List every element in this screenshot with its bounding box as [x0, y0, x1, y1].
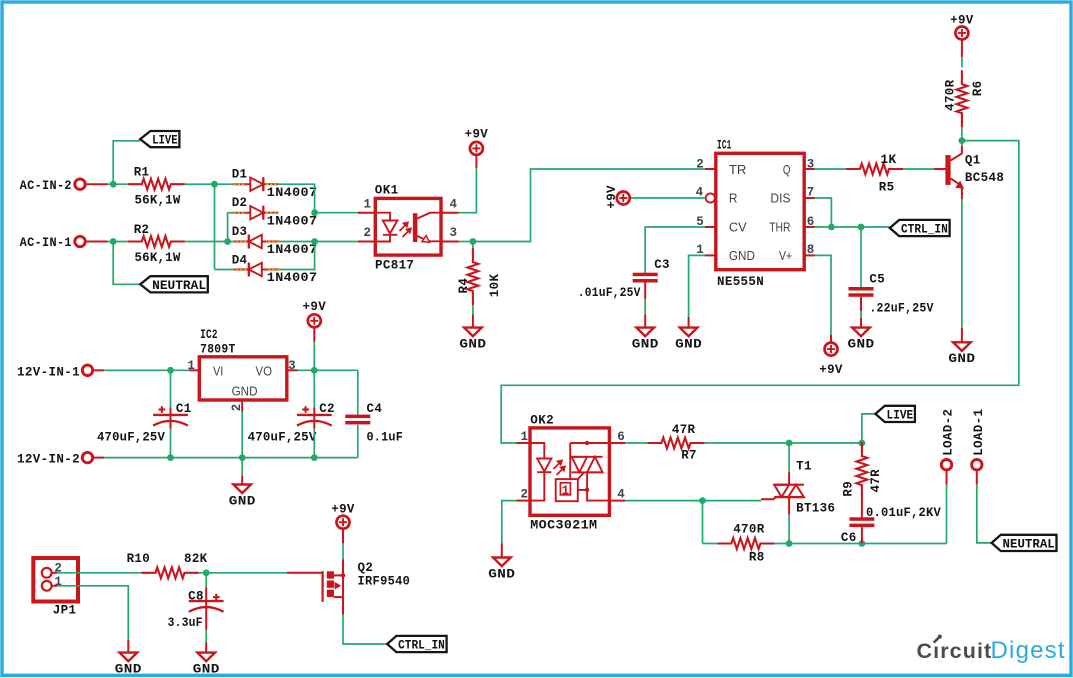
svg-text:6: 6	[807, 215, 815, 229]
svg-text:1N4007: 1N4007	[267, 270, 318, 285]
svg-text:470uF,25V: 470uF,25V	[248, 430, 317, 444]
svg-text:C3: C3	[654, 257, 670, 272]
svg-text:12V-IN-2: 12V-IN-2	[17, 452, 80, 467]
svg-text:NEUTRAL: NEUTRAL	[1003, 538, 1055, 552]
svg-text:1K: 1K	[881, 152, 897, 167]
svg-text:C2: C2	[319, 401, 335, 416]
svg-text:2: 2	[521, 487, 529, 501]
svg-text:CV: CV	[729, 220, 747, 235]
svg-text:T1: T1	[796, 459, 812, 474]
svg-text:Q: Q	[783, 162, 791, 177]
svg-text:D2: D2	[232, 195, 248, 210]
svg-text:NEUTRAL: NEUTRAL	[152, 279, 206, 293]
svg-text:6: 6	[617, 430, 625, 444]
svg-text:D3: D3	[232, 224, 248, 239]
svg-text:V+: V+	[779, 248, 792, 263]
svg-text:LIVE: LIVE	[887, 409, 914, 423]
svg-text:0.01uF,2KV: 0.01uF,2KV	[866, 506, 941, 520]
svg-text:GND: GND	[232, 383, 258, 398]
svg-text:C4: C4	[367, 401, 383, 416]
svg-text:AC-IN-2: AC-IN-2	[20, 178, 72, 193]
svg-text:R5: R5	[879, 179, 895, 194]
svg-text:CTRL_IN: CTRL_IN	[398, 639, 445, 653]
svg-text:56K,1W: 56K,1W	[135, 251, 181, 265]
svg-text:1N4007: 1N4007	[267, 185, 318, 200]
svg-text:2: 2	[364, 226, 372, 240]
svg-text:1: 1	[562, 484, 570, 498]
svg-text:1: 1	[364, 198, 372, 212]
svg-text:3: 3	[450, 226, 458, 240]
svg-text:4: 4	[617, 487, 625, 501]
svg-text:1N4007: 1N4007	[267, 242, 318, 257]
svg-text:R4: R4	[456, 278, 471, 294]
svg-text:2: 2	[696, 157, 704, 171]
svg-text:JP1: JP1	[53, 603, 77, 618]
svg-text:7: 7	[807, 185, 815, 199]
svg-text:GND: GND	[729, 248, 755, 263]
svg-text:12V-IN-1: 12V-IN-1	[17, 364, 80, 379]
svg-text:R2: R2	[134, 222, 150, 237]
svg-text:MOC3021M: MOC3021M	[530, 518, 597, 533]
svg-text:C5: C5	[869, 272, 885, 287]
svg-text:D4: D4	[232, 252, 248, 267]
svg-text:BC548: BC548	[965, 170, 1004, 185]
svg-text:C6: C6	[841, 530, 857, 545]
svg-text:C8: C8	[188, 589, 204, 604]
svg-text:VO: VO	[256, 364, 273, 379]
svg-text:R6: R6	[970, 81, 985, 97]
svg-text:7809T: 7809T	[200, 341, 236, 356]
svg-text:56K,1W: 56K,1W	[135, 194, 181, 208]
svg-text:VI: VI	[213, 364, 223, 379]
svg-text:Cırcuit: Cırcuit	[917, 639, 993, 663]
svg-text:LOAD-1: LOAD-1	[971, 409, 986, 456]
svg-text:1: 1	[521, 430, 529, 444]
svg-text:.22uF,25V: .22uF,25V	[869, 302, 933, 316]
svg-text:47R: 47R	[868, 469, 883, 493]
svg-text:2: 2	[230, 404, 244, 412]
svg-text:OK2: OK2	[530, 413, 554, 428]
svg-text:LOAD-2: LOAD-2	[941, 409, 956, 456]
svg-text:+9V: +9V	[303, 299, 327, 314]
svg-text:THR: THR	[769, 220, 790, 235]
svg-text:C1: C1	[176, 401, 192, 416]
svg-text:R: R	[729, 191, 738, 206]
svg-text:TR: TR	[729, 162, 747, 177]
svg-text:+9V: +9V	[819, 362, 843, 377]
svg-text:CTRL_IN: CTRL_IN	[901, 223, 948, 237]
svg-text:8: 8	[807, 243, 815, 257]
svg-text:LIVE: LIVE	[152, 134, 178, 148]
svg-text:470uF,25V: 470uF,25V	[97, 430, 165, 444]
svg-text:1N4007: 1N4007	[267, 213, 318, 228]
svg-text:R10: R10	[127, 551, 151, 566]
svg-text:PC817: PC817	[375, 257, 414, 272]
svg-text:3: 3	[288, 359, 296, 373]
svg-text:0.1uF: 0.1uF	[367, 430, 404, 444]
svg-text:+9V: +9V	[465, 127, 489, 142]
svg-text:D1: D1	[232, 167, 248, 182]
svg-text:3: 3	[807, 157, 815, 171]
svg-text:R7: R7	[681, 448, 697, 463]
svg-text:470R: 470R	[943, 80, 958, 111]
svg-text:4: 4	[450, 198, 458, 212]
svg-text:AC-IN-1: AC-IN-1	[20, 235, 72, 250]
svg-text:3.3uF: 3.3uF	[168, 616, 203, 630]
svg-text:470R: 470R	[733, 522, 764, 537]
svg-text:IC1: IC1	[717, 138, 732, 153]
svg-text:Digest: Digest	[991, 637, 1066, 664]
svg-text:10K: 10K	[487, 274, 502, 298]
svg-text:IC2: IC2	[200, 327, 218, 342]
svg-text:R8: R8	[749, 549, 765, 564]
svg-text:Q1: Q1	[965, 153, 981, 168]
svg-text:82K: 82K	[184, 551, 208, 566]
svg-text:OK1: OK1	[375, 183, 399, 198]
svg-text:R9: R9	[841, 481, 856, 497]
svg-text:NE555N: NE555N	[717, 274, 764, 289]
svg-text:+9V: +9V	[604, 185, 619, 209]
svg-text:+9V: +9V	[950, 13, 974, 28]
svg-text:+9V: +9V	[331, 501, 355, 516]
svg-text:IRF9540: IRF9540	[358, 574, 411, 589]
svg-text:BT136: BT136	[796, 501, 835, 516]
svg-text:R1: R1	[134, 165, 150, 180]
svg-text:47R: 47R	[672, 422, 696, 437]
svg-text:.01uF,25V: .01uF,25V	[578, 286, 641, 300]
svg-text:DIS: DIS	[770, 191, 790, 206]
